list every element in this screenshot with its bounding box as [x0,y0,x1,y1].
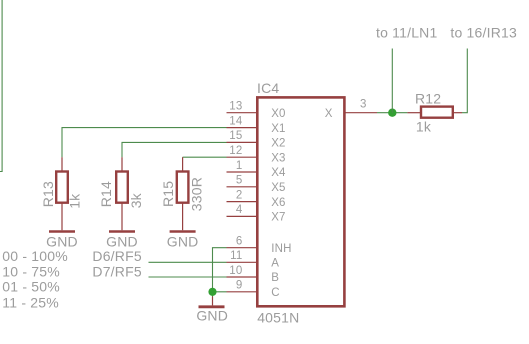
pin 14 X1 [227,115,286,134]
ground under junction node [199,297,225,307]
junction node C/INH/GND [208,288,216,296]
svg-text:to 11/LN1: to 11/LN1 [376,25,437,41]
svg-text:1k: 1k [416,118,432,134]
svg-text:6: 6 [236,236,243,248]
svg-text:D7/RF5: D7/RF5 [92,263,141,279]
wire net C to GND node [213,292,227,297]
pin 9 C [227,280,280,299]
svg-text:14: 14 [229,115,243,127]
ground under R15 [170,230,196,233]
svg-text:X7: X7 [271,212,285,224]
pin 4 X7 [227,204,286,223]
pin 5 X5 [227,175,286,194]
wire net pin3 X to junction [377,112,407,114]
svg-text:X5: X5 [271,182,285,194]
svg-text:4: 4 [236,204,243,216]
wire net INH to GND node [213,248,227,292]
pin 10 B [227,265,280,284]
svg-text:A: A [271,258,279,270]
junction node X net to 11/LN1 [388,109,396,117]
svg-text:R15: R15 [160,181,176,207]
wire net B to D7/RF5 [149,276,227,278]
svg-text:5: 5 [236,175,243,187]
svg-text:10 - 75%: 10 - 75% [2,263,60,279]
svg-text:4051N: 4051N [257,310,299,326]
svg-text:X0: X0 [271,108,285,120]
svg-text:12: 12 [229,145,242,157]
svg-text:INH: INH [271,243,291,255]
svg-text:11: 11 [230,250,242,262]
pin 1 X4 [227,160,287,179]
svg-text:X2: X2 [271,138,285,150]
svg-text:GND: GND [196,307,228,323]
IC op U1 IC4 box [257,97,344,306]
svg-text:GND: GND [46,233,78,249]
svg-text:9: 9 [236,280,243,292]
wire net X3 to R15 [183,156,227,158]
svg-text:11 - 25%: 11 - 25% [2,295,59,311]
resistor R15 [177,157,189,230]
svg-text:D6/RF5: D6/RF5 [92,248,141,264]
svg-text:15: 15 [229,130,242,142]
svg-text:2: 2 [236,189,243,201]
svg-text:R14: R14 [98,181,114,207]
pin 13 X0 [227,101,286,120]
svg-text:10: 10 [229,265,242,277]
wire net A to D6/RF5 [149,261,227,263]
svg-text:330R: 330R [189,177,205,211]
svg-text:IC4: IC4 [257,80,279,96]
ground under R14 [109,230,135,233]
pin 15 X2 [227,130,286,149]
svg-text:to 16/IR13: to 16/IR13 [450,25,517,41]
svg-text:3: 3 [360,99,367,111]
resistor R14 [116,157,128,230]
svg-text:01 - 50%: 01 - 50% [2,279,60,295]
pin 3 X output [325,99,377,120]
svg-text:X3: X3 [271,152,285,164]
svg-text:X1: X1 [271,123,285,135]
resistor R13 [56,157,68,230]
svg-text:GND: GND [106,233,138,249]
svg-text:13: 13 [229,101,242,113]
resistor R12 [407,107,462,118]
svg-text:R12: R12 [415,90,441,106]
pin 12 X3 [227,145,286,164]
svg-text:3k: 3k [128,192,144,208]
pin 6 INH [227,236,292,255]
svg-text:R13: R13 [40,181,56,207]
svg-text:B: B [271,272,279,284]
pin 11 A [227,250,280,269]
pin 2 X6 [227,189,286,208]
ground under R13 [49,230,75,233]
wire net to 11/LN1 vertical [391,49,393,113]
svg-text:C: C [271,287,280,299]
wire net X2 to R14 [122,142,227,157]
wire left vertical net exiting left edge [0,0,2,172]
svg-text:GND: GND [167,233,199,249]
svg-text:X4: X4 [271,167,286,179]
svg-text:1k: 1k [66,193,82,209]
svg-text:00 - 100%: 00 - 100% [2,248,68,264]
svg-text:X: X [325,108,333,120]
svg-text:1: 1 [236,160,243,172]
wire net R12 right to to 16/IR13 [462,49,467,113]
svg-text:X6: X6 [271,197,285,209]
wire net X1 to R13 [62,128,227,158]
